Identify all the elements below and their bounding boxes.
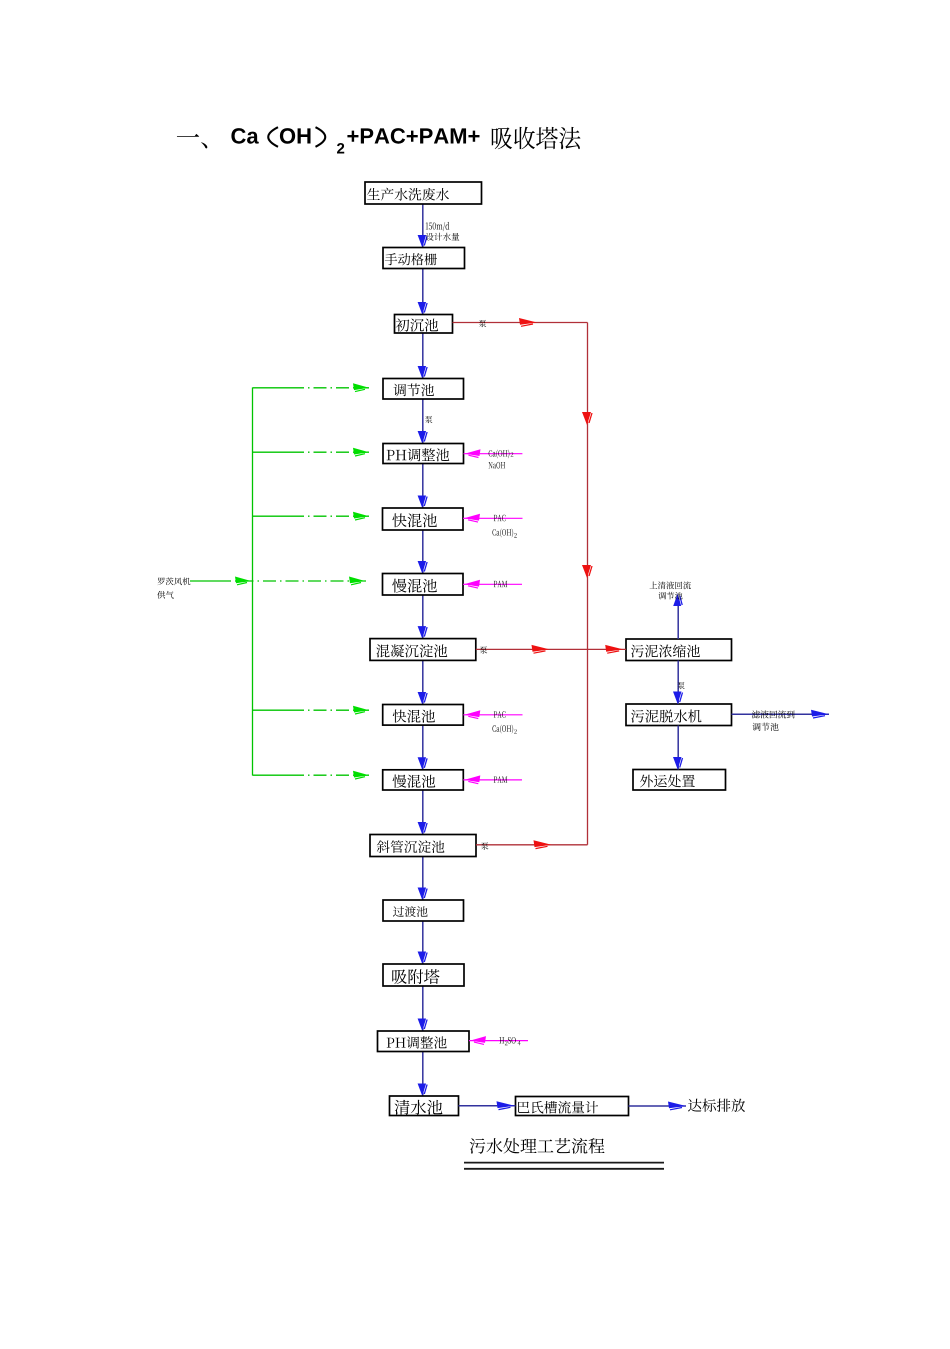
red arrow a on 混凝沉淀池 wire (532, 645, 550, 652)
process box B15 清水池 (390, 1096, 459, 1116)
main flow wire segment 9 (422, 725, 424, 770)
main flow arrow 4 (418, 431, 427, 444)
pump label 泵 初沉池 (479, 320, 486, 327)
process box B6 快混池 (383, 508, 464, 530)
chemical label sub2 c (514, 729, 517, 733)
main flow wire segment 14 (422, 1052, 424, 1097)
main flow wire segment 6 (422, 530, 424, 574)
green air wire to 快混池 (253, 515, 292, 517)
main flow wire segment 11 (422, 857, 424, 901)
blue wire 清水池 to 巴氏槽流量计 (459, 1105, 516, 1107)
process box B5 PH调整池 (383, 444, 464, 464)
main flow wire segment 10 (422, 790, 424, 835)
green air arrow 罗茨风机 a (235, 577, 251, 584)
green vertical air wire (252, 388, 254, 776)
label 调节池 filtrate (752, 723, 778, 731)
process box B12 过渡池 (383, 900, 464, 921)
process box B4 调节池 (383, 379, 464, 400)
main flow arrow 8 (418, 692, 427, 705)
process box B2 手动格栅 (383, 248, 465, 269)
pump label 泵 斜管沉淀池 (481, 842, 488, 849)
caption underline 1 (464, 1162, 664, 1164)
pump label 泵 污泥浓缩池 (677, 682, 684, 689)
label 150m/d (426, 222, 450, 231)
blue wire 污泥浓缩池 up to supernatant (677, 605, 679, 639)
process box B10 慢混池(2) (383, 770, 464, 790)
chemical label sub2 a (511, 452, 514, 456)
green air wire to 慢混池(2) (253, 774, 292, 776)
main flow arrow 7 (418, 626, 427, 639)
blue arrow filtrate (811, 710, 829, 717)
blue arrow to 巴氏槽流量计 (497, 1101, 515, 1108)
process box B11 斜管沉淀池 (370, 835, 476, 857)
process box B19 外运处置 (633, 770, 726, 791)
red down arrow 2 (582, 565, 591, 578)
label 达标排放 (688, 1099, 745, 1112)
caption underline 2 (464, 1168, 664, 1170)
label 上清液回流 (650, 581, 691, 589)
blue arrow outfall (668, 1102, 686, 1109)
green air wire to 快混池(2) (253, 709, 292, 711)
red wire 初沉池 to vertical (453, 322, 588, 324)
process box B7 慢混池 (383, 574, 464, 596)
green air wire 罗茨风机 (190, 580, 218, 582)
main flow wire segment 13 (422, 986, 424, 1031)
chemical wire PAC/Ca(OH)2 快混池2 (463, 714, 522, 716)
process box B9 快混池(2) (383, 705, 464, 726)
chemical wire PAC/Ca(OH)2 快混池 (463, 517, 523, 519)
blue wire 污泥脱水机 to 外运处置 (677, 726, 679, 770)
chemical wire PAM 慢混池2 (463, 779, 522, 781)
chemical sublabel Ca(OH)2/NaOH PH调整池 (489, 462, 506, 469)
main flow arrow 10 (418, 822, 427, 835)
label 滤液回流到 (752, 710, 795, 718)
label 供气 (157, 591, 173, 599)
main flow wire segment 5 (422, 464, 424, 509)
main flow wire segment 8 (422, 660, 424, 704)
chemical label H2SO4 (499, 1037, 504, 1043)
process box B8 混凝沉淀池 (370, 639, 476, 661)
main flow arrow 6 (418, 561, 427, 574)
green air wire to 调节池 (253, 387, 292, 389)
green air arrow to 调节池 (353, 383, 369, 390)
blue down arrow to 外运处置 (673, 757, 682, 770)
main flow arrow 2 (418, 302, 427, 315)
blue up arrow supernatant (673, 594, 681, 607)
main flow arrow 1 (418, 235, 427, 248)
process box B17 污泥浓缩池 (626, 639, 732, 661)
main flow arrow 13 (418, 1019, 427, 1032)
main flow arrow 12 (418, 952, 427, 965)
main flow wire segment 12 (422, 921, 424, 964)
red arrow on 初沉池 wire (519, 318, 537, 325)
chemical sublabel PAC/Ca(OH)2 快混池2 (492, 725, 513, 734)
chemical wire PAM 慢混池 (463, 583, 522, 585)
chemical label PAC/Ca(OH)2 快混池2 (494, 711, 506, 718)
chemical label PAM 慢混池2 (494, 776, 507, 782)
chemical label PAM 慢混池 (494, 581, 507, 587)
chemical label PAC/Ca(OH)2 快混池 (494, 515, 506, 522)
label 设计水量 (426, 233, 460, 241)
process box B1 生产水洗废水 (365, 182, 482, 204)
blue wire 污泥脱水机 filtrate (732, 713, 830, 715)
chemical label sub2 b (514, 533, 517, 537)
process box B13 吸附塔 (383, 964, 464, 986)
label 调节池 supernatant (658, 592, 682, 600)
label 罗茨风机 (157, 577, 190, 585)
green air arrow to PH调整池 (353, 448, 369, 455)
green air arrow to 慢混池(2) (353, 771, 369, 778)
blue wire 巴氏槽流量计 to outfall (629, 1105, 687, 1107)
caption 污水处理工艺流程 (470, 1138, 605, 1154)
process box B3 初沉池 (395, 315, 453, 334)
title text (177, 134, 207, 148)
main flow arrow 11 (418, 888, 427, 901)
main flow arrow 14 (418, 1084, 427, 1097)
main flow arrow 5 (418, 496, 427, 509)
main flow wire segment 4 (422, 399, 424, 444)
main flow wire segment 7 (422, 595, 424, 639)
process box B14 PH调整池(2) (378, 1031, 470, 1052)
main flow wire segment 2 (422, 269, 424, 315)
main flow arrow 3 (418, 366, 427, 379)
blue wire 污泥浓缩池 to 污泥脱水机 (677, 661, 679, 705)
chemical wire Ca(OH)2/NaOH PH调整池 (464, 453, 523, 455)
main flow wire segment 3 (422, 333, 424, 379)
chemical sublabel PAC/Ca(OH)2 快混池 (492, 528, 513, 537)
green air arrow 罗茨风机 b (349, 577, 365, 584)
red arrow b on 混凝沉淀池 wire (605, 645, 623, 652)
chemical label Ca(OH)2/NaOH PH调整池 (489, 449, 510, 458)
pump label 泵 混凝沉淀池 (480, 646, 487, 653)
red wire 混凝沉淀池 to 污泥浓缩池 (476, 648, 626, 650)
red down arrow 1 (582, 412, 591, 425)
main flow wire segment 1 (422, 204, 424, 248)
pump label 泵 below 调节池 (425, 416, 432, 423)
process box B18 污泥脱水机 (626, 704, 732, 726)
green air wire to PH调整池 (253, 451, 292, 453)
main flow arrow 9 (418, 757, 427, 770)
red vertical sludge wire (587, 323, 589, 845)
chemical wire H2SO4 (469, 1040, 528, 1042)
process box B16 巴氏槽流量计 (516, 1097, 629, 1116)
blue down arrow to 污泥脱水机 (673, 692, 682, 705)
red arrow on 斜管沉淀池 wire (534, 840, 552, 847)
green air arrow to 快混池(2) (353, 706, 369, 713)
green air arrow to 快混池 (353, 512, 369, 519)
red wire 斜管沉淀池 to vertical (476, 844, 588, 846)
